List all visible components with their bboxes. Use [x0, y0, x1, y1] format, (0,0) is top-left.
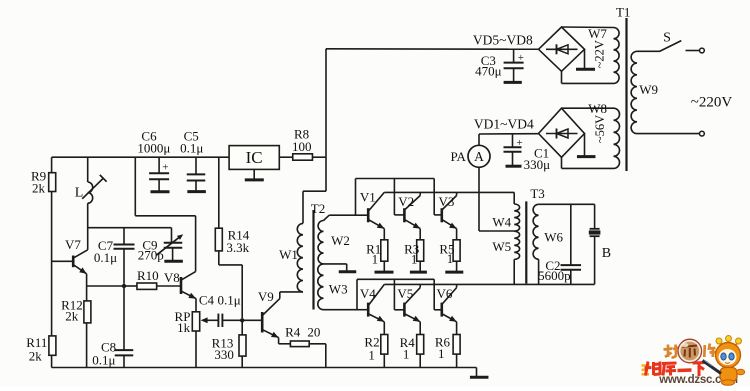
label T3: [530, 186, 544, 201]
label V6: [437, 286, 453, 301]
resistor R12: [84, 286, 91, 368]
svg-text:W8: W8: [588, 101, 607, 116]
resistor R3: [417, 240, 424, 272]
pickup L: [82, 157, 106, 250]
svg-text:2k: 2k: [29, 349, 43, 364]
resistor R1: [381, 240, 388, 272]
wire PA to T3 centre tap: [479, 230, 514, 232]
transformer T1 core: [625, 18, 627, 171]
capacitor C9 (trimmer): [156, 234, 183, 261]
svg-text:470μ: 470μ: [475, 64, 502, 79]
svg-text:B: B: [602, 246, 611, 261]
label V8: [164, 270, 180, 285]
label W8 value ~56V: [588, 101, 607, 143]
svg-text:V7: V7: [65, 237, 81, 252]
switch S: [637, 41, 699, 52]
svg-text:V4: V4: [360, 286, 376, 301]
label R8 value 100: [292, 127, 312, 154]
label V5: [397, 286, 413, 301]
terminal (mains top): [700, 48, 705, 53]
svg-text:V5: V5: [397, 286, 413, 301]
transistor V8: [181, 272, 196, 312]
ground (IC): [245, 169, 264, 180]
svg-text:~56V: ~56V: [593, 115, 607, 143]
label V7: [65, 237, 81, 252]
wire top supply bus to rectifier VD5-VD8: [326, 48, 539, 50]
label R3 value 1: [404, 242, 419, 267]
svg-text:V3: V3: [438, 194, 454, 209]
svg-text:+: +: [518, 52, 524, 64]
svg-text:330μ: 330μ: [524, 157, 551, 172]
wire W2/W3 centre tap: [324, 264, 347, 272]
resistor R9: [49, 173, 56, 192]
bridge rectifier VD5-VD8: [539, 27, 585, 71]
svg-text:1k: 1k: [177, 320, 191, 335]
label V1: [360, 190, 376, 205]
ground (R3): [410, 271, 427, 274]
label R14 value 3.3k: [226, 228, 249, 255]
ground (C6 bottom): [151, 190, 170, 193]
ground (VD5-VD8 dc-): [576, 49, 595, 69]
ground (VD1-VD4 dc-): [577, 134, 596, 157]
winding W2: [318, 215, 329, 264]
label C5 value 0.1u: [180, 129, 203, 156]
wire to rectifier VD1-VD4: [479, 133, 539, 135]
svg-text:W1: W1: [279, 247, 298, 262]
label C2 value 5600p: [538, 258, 571, 283]
winding W4: [514, 192, 519, 231]
ground (bottom right): [470, 368, 489, 378]
svg-text:R10: R10: [137, 268, 159, 283]
label VD5~VD8: [473, 33, 533, 48]
label R5 value 1: [439, 242, 454, 267]
svg-text:2k: 2k: [32, 181, 46, 196]
label R2 value 1: [364, 334, 379, 362]
svg-text:5600p: 5600p: [538, 268, 571, 283]
svg-text:2k: 2k: [65, 308, 79, 323]
svg-text:W4: W4: [492, 214, 511, 229]
transistor V5: [394, 279, 420, 334]
capacitor C5: [187, 157, 206, 191]
label V2: [398, 194, 414, 209]
capacitor C8: [115, 288, 134, 368]
ground (R1): [375, 271, 394, 274]
svg-text:0.1μ: 0.1μ: [217, 292, 240, 307]
wire V8 collector feedback to rail: [135, 157, 195, 271]
ground (C9 bottom): [164, 260, 183, 263]
resistor R5: [453, 240, 460, 272]
label VD1~VD4: [474, 116, 534, 131]
wire VD1-VD4 ac to W8: [562, 108, 614, 168]
label R11 value 2k: [26, 335, 47, 364]
ground (C5 bottom): [187, 190, 206, 193]
wire riser to T2 primary: [303, 191, 326, 223]
winding W6: [533, 204, 595, 284]
transistor V7: [52, 250, 88, 286]
winding W5: [514, 231, 519, 284]
ground (C3 bottom): [504, 81, 522, 84]
svg-text:~220V: ~220V: [691, 94, 733, 110]
ground (R5): [445, 271, 463, 274]
svg-text:A: A: [474, 149, 484, 164]
svg-text:PA: PA: [450, 149, 466, 164]
label W1: [279, 247, 298, 262]
wire W9 bottom to mains: [637, 133, 700, 135]
label T1: [616, 5, 630, 20]
label L: [75, 186, 84, 201]
potentiometer RP: [192, 312, 199, 368]
svg-text:V6: V6: [437, 286, 453, 301]
winding W9: [631, 51, 637, 133]
label R10: [137, 268, 159, 283]
ground (T2 centre tap): [339, 270, 357, 273]
label R4 value 20: [285, 325, 320, 340]
svg-text:+: +: [516, 137, 522, 149]
label T2: [311, 201, 325, 216]
svg-text:W3: W3: [329, 281, 348, 296]
svg-text:100: 100: [292, 139, 312, 154]
wire V4 base: [357, 309, 368, 311]
label W5: [492, 239, 511, 254]
transistor V4: [368, 284, 384, 334]
label C1 value 330u: [524, 145, 551, 172]
capacitor C3 (filter, electrolytic): [504, 49, 524, 82]
transistor V2: [394, 179, 420, 240]
svg-text:330: 330: [214, 347, 234, 362]
label W9: [639, 82, 658, 97]
svg-text:0.1μ: 0.1μ: [180, 141, 203, 156]
label W3: [329, 281, 348, 296]
ground (C1 bottom): [506, 165, 522, 168]
transistor V3: [434, 179, 456, 240]
wire bottom collector bus / output loop bottom: [384, 283, 594, 285]
wire bottom base bus: [357, 279, 434, 309]
label PA: [450, 149, 466, 164]
label C9 value 270p: [138, 237, 164, 262]
svg-text:20: 20: [307, 325, 320, 340]
svg-text:VD5~VD8: VD5~VD8: [473, 33, 533, 48]
label R6 value 1: [435, 334, 451, 361]
label R12 value 2k: [61, 297, 83, 323]
capacitor C1 (filter, electrolytic): [504, 134, 523, 166]
label R9 value 2k: [31, 169, 46, 196]
resistor R8: [279, 154, 326, 160]
svg-text:T2: T2: [311, 201, 325, 216]
resistor R2: [381, 335, 388, 368]
op-amp IC U1: [229, 146, 279, 170]
svg-text:V9: V9: [258, 289, 274, 304]
resistor R10: [124, 283, 181, 289]
svg-text:3.3k: 3.3k: [226, 240, 249, 255]
svg-text:R4: R4: [285, 325, 301, 340]
transistor V9 (driver): [242, 299, 280, 344]
wire bottom ground rail: [52, 367, 477, 369]
wire VD5-VD8 ac to W7: [562, 27, 614, 83]
svg-text:S: S: [663, 31, 671, 46]
capacitor C6 (electrolytic): [149, 157, 169, 191]
resistor R11: [49, 336, 56, 355]
transducer B: [589, 204, 601, 284]
label B: [602, 246, 611, 261]
resistor R4 (output): [417, 335, 424, 368]
resistor R13: [239, 320, 246, 367]
label R4 value 1: [400, 335, 416, 362]
svg-text:C4: C4: [199, 292, 215, 307]
winding W7: [614, 28, 620, 84]
terminal (mains bottom): [700, 131, 705, 136]
label C6 value 1000u: [137, 129, 170, 156]
wire top base bus: [356, 179, 435, 216]
svg-text:+: +: [162, 162, 168, 174]
svg-text:W5: W5: [492, 239, 511, 254]
transformer T2 core: [312, 210, 314, 310]
label V9: [258, 289, 274, 304]
transformer T3 core: [525, 201, 527, 283]
resistor R4 20 (V9 emitter): [279, 341, 326, 368]
bridge rectifier VD1-VD4: [539, 108, 585, 157]
svg-text:W6: W6: [544, 230, 563, 245]
label W7 value ~22V: [588, 26, 607, 68]
watermark logo: [642, 336, 745, 387]
winding W8: [614, 108, 620, 168]
svg-text:V8: V8: [164, 270, 180, 285]
label W2: [331, 233, 350, 248]
label C8 value 0.1u: [92, 340, 116, 368]
svg-text:1: 1: [438, 346, 445, 361]
capacitor C4 (coupling, with wiper arrow): [201, 314, 243, 327]
label ~220V: [691, 94, 733, 110]
svg-text:1: 1: [411, 252, 418, 267]
node A (V7 emitter / R10 / C7 / C8 junction): [122, 284, 126, 288]
svg-text:VD1~VD4: VD1~VD4: [474, 116, 534, 131]
label C7 value 0.1u: [94, 238, 117, 265]
winding W3: [318, 264, 357, 310]
svg-text:W2: W2: [331, 233, 350, 248]
label S: [663, 31, 671, 46]
label RP value 1k: [175, 309, 191, 335]
resistor R6: [453, 335, 460, 368]
capacitor C2: [561, 204, 582, 284]
svg-text:1: 1: [447, 251, 454, 266]
svg-text:270p: 270p: [138, 247, 164, 262]
label R13 value 330: [212, 336, 234, 362]
label V4: [360, 286, 376, 301]
label W6: [544, 230, 563, 245]
wire top-left supply rail: [52, 156, 230, 158]
winding W1: [297, 223, 303, 292]
svg-text:1: 1: [403, 347, 410, 362]
svg-text:V1: V1: [360, 190, 376, 205]
wire left column (R9/R11 branch): [51, 157, 53, 367]
label C3 value 470u: [475, 53, 502, 79]
svg-text:W7: W7: [588, 26, 607, 41]
label C4 value 0.1u: [199, 292, 241, 307]
wire top collector bus to T3 W4: [384, 191, 514, 193]
svg-text:0.1μ: 0.1μ: [92, 353, 115, 368]
transistor V1: [368, 192, 384, 239]
svg-text:W9: W9: [639, 82, 658, 97]
wire supply riser (R8 node to top bus): [325, 49, 327, 191]
svg-text:IC: IC: [246, 148, 263, 167]
label V3: [438, 194, 454, 209]
svg-text:1000μ: 1000μ: [137, 141, 170, 156]
svg-text:0.1μ: 0.1μ: [94, 250, 117, 265]
wire V7 collector feed to C7/C9: [88, 228, 172, 243]
svg-text:~22V: ~22V: [593, 40, 607, 68]
wire V9 collector to T2 W1: [280, 292, 303, 299]
wire W2 to V1 base: [329, 214, 368, 216]
label R1 value 1: [366, 242, 381, 267]
wire V7 emitter to node: [87, 285, 124, 287]
label W4: [492, 214, 511, 229]
capacitor C7: [114, 228, 135, 284]
resistor R14: [215, 157, 242, 318]
node B (C4 / R13 / R14 / V9 base junction): [240, 318, 244, 322]
svg-text:1: 1: [372, 252, 379, 267]
svg-text:T3: T3: [530, 186, 544, 201]
svg-text:L: L: [75, 186, 84, 201]
transistor V6: [434, 279, 456, 334]
svg-text:T1: T1: [616, 5, 630, 20]
svg-text:1: 1: [368, 348, 375, 363]
ammeter PA: [468, 134, 490, 231]
svg-text:V2: V2: [398, 194, 414, 209]
